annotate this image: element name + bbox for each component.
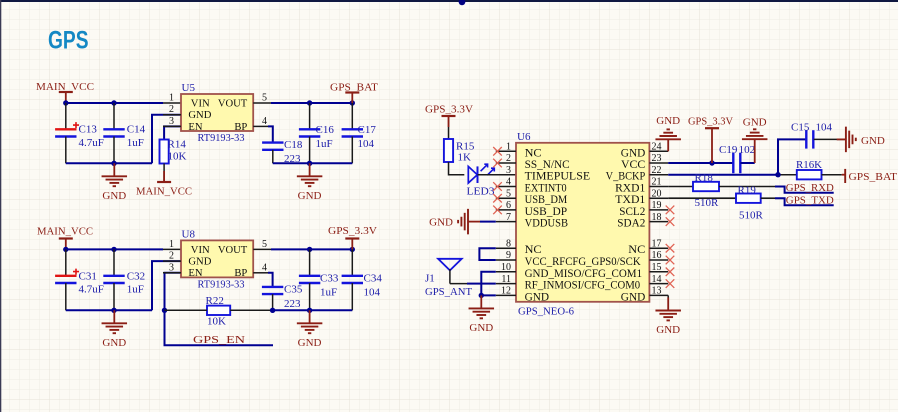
pin U5.4 stub bbox=[253, 125, 268, 127]
svg-text:10K: 10K bbox=[207, 316, 226, 328]
svg-text:BP: BP bbox=[234, 122, 247, 133]
junction bbox=[350, 100, 355, 105]
junction bbox=[307, 100, 312, 105]
ground GND above pin24 bbox=[655, 115, 681, 151]
svg-text:USB_DP: USB_DP bbox=[525, 206, 568, 218]
capacitor C33 1uF bbox=[299, 273, 339, 299]
svg-text:R18: R18 bbox=[695, 172, 714, 184]
ground GND below pin13 bbox=[655, 298, 681, 337]
svg-text:3: 3 bbox=[169, 116, 174, 127]
junction bbox=[307, 308, 312, 313]
svg-text:GND: GND bbox=[621, 291, 646, 303]
wire R19 to GPS_TXD bbox=[775, 198, 834, 205]
capacitor C14 1uF bbox=[103, 124, 145, 150]
U5 pin names bbox=[188, 98, 247, 132]
power port GPS_3.3V (top middle) bbox=[688, 115, 733, 163]
wire U5 pin5 VOUT to GPS_BAT bbox=[271, 102, 352, 104]
svg-text:2: 2 bbox=[169, 251, 174, 262]
ground GND right of C15 bbox=[837, 127, 885, 152]
wire C32 top lead bbox=[113, 249, 115, 275]
resistor R19 body bbox=[736, 194, 761, 203]
power port GPS_BAT (right) bbox=[842, 169, 897, 183]
wire C13 top lead bbox=[65, 103, 67, 129]
wire C35 bottom lead bbox=[272, 294, 274, 310]
pin U5.2 stub bbox=[163, 114, 181, 116]
svg-text:U8: U8 bbox=[182, 229, 196, 241]
resistor R18 body bbox=[693, 182, 719, 191]
wire C31 top lead bbox=[65, 249, 67, 275]
wire R19 right lead bbox=[761, 197, 775, 199]
wire U6 pin22 V_BCKP bbox=[668, 174, 778, 176]
svg-text:U6: U6 bbox=[517, 131, 531, 143]
svg-text:GPS_3.3V: GPS_3.3V bbox=[328, 225, 377, 237]
junction bbox=[111, 100, 116, 105]
svg-text:BP: BP bbox=[234, 268, 247, 279]
pin U5.1 bbox=[163, 102, 181, 104]
wire C14 bottom lead bbox=[113, 137, 115, 164]
svg-text:GPS_NEO-6: GPS_NEO-6 bbox=[518, 305, 574, 317]
svg-text:R22: R22 bbox=[206, 295, 224, 307]
wire U6 pin11 tie bbox=[481, 283, 496, 285]
svg-text:4: 4 bbox=[262, 262, 267, 273]
svg-text:1K: 1K bbox=[458, 152, 472, 164]
svg-text:1uF: 1uF bbox=[127, 284, 144, 296]
U8 pin numbers bbox=[169, 239, 267, 273]
svg-text:GPS_BAT: GPS_BAT bbox=[849, 171, 898, 183]
wire U6 pin13 to GND bbox=[667, 295, 669, 297]
svg-text:RT9193-33: RT9193-33 bbox=[198, 132, 245, 144]
wire U6 pin20 TXD1 to R19 bbox=[668, 197, 736, 199]
pin U8.3 stub bbox=[163, 272, 181, 274]
svg-text:GND: GND bbox=[102, 190, 126, 202]
svg-text:VIN: VIN bbox=[191, 98, 210, 109]
svg-text:VCC: VCC bbox=[621, 159, 646, 171]
antenna J1 GPS_ANT bbox=[438, 259, 462, 284]
capacitor C32 1uF bbox=[103, 271, 145, 296]
svg-text:R19: R19 bbox=[738, 184, 757, 196]
wire antenna to pin11 tie bbox=[467, 283, 481, 285]
op-amp U6 GPS_NEO-6 body bbox=[516, 143, 649, 302]
svg-text:10K: 10K bbox=[168, 151, 187, 163]
resistor R22 body bbox=[207, 306, 230, 315]
wire R22 left lead bbox=[165, 309, 208, 311]
pin U8.2 stub bbox=[163, 260, 181, 262]
U6 left pin stubs bbox=[496, 151, 516, 295]
wire U6 pins 8-9 tie bbox=[479, 248, 495, 260]
wire U5 pin3 EN bbox=[164, 126, 181, 139]
ground GND lower-right bbox=[297, 310, 323, 349]
svg-text:GND: GND bbox=[656, 115, 680, 127]
sheet border top bbox=[0, 0, 898, 2]
wire U5 pin2 to GND rail bbox=[152, 115, 181, 164]
svg-text:4.7uF: 4.7uF bbox=[79, 137, 104, 149]
wire R15 bottom to LED3 bbox=[449, 162, 465, 175]
U6 pin numbers bbox=[501, 142, 662, 297]
wire GND rail (lower-right) bbox=[273, 309, 353, 311]
svg-text:510R: 510R bbox=[739, 209, 764, 221]
wire antenna lead bbox=[450, 283, 467, 285]
svg-text:SS_N/NC: SS_N/NC bbox=[525, 159, 570, 171]
svg-text:MAIN_VCC: MAIN_VCC bbox=[36, 81, 94, 93]
svg-text:5: 5 bbox=[262, 93, 267, 104]
pin U5.3 stub bbox=[163, 125, 181, 127]
wire U6 pin7 VDDUSB to GND bbox=[480, 221, 496, 223]
wire U8 pin3 EN / GPS_EN bbox=[165, 273, 274, 346]
junction bbox=[63, 247, 68, 252]
power port MAIN_VCC (lower) bbox=[37, 226, 93, 250]
svg-text:104: 104 bbox=[364, 287, 381, 299]
op-amp U8 RT9193-33 body bbox=[181, 240, 253, 277]
svg-text:104: 104 bbox=[358, 138, 375, 150]
wire V_BCKP up to C15 bbox=[778, 139, 806, 174]
svg-text:C31: C31 bbox=[79, 271, 97, 283]
svg-text:NC: NC bbox=[628, 244, 645, 256]
svg-text:NC: NC bbox=[525, 147, 542, 159]
junction bbox=[111, 247, 116, 252]
wire C19 to GND stem bbox=[740, 162, 754, 164]
svg-text:GND: GND bbox=[298, 190, 322, 202]
no-connect X marks U6 left pins 1,2,4,5,6 bbox=[493, 147, 502, 214]
U5 pin numbers bbox=[169, 93, 267, 127]
wire C16 top lead bbox=[309, 103, 311, 129]
svg-text:C32: C32 bbox=[127, 271, 145, 283]
U6 pin names bbox=[525, 147, 646, 303]
pin U8.4 stub bbox=[253, 272, 268, 274]
junction on top border bbox=[459, 0, 466, 5]
power port GPS_3.3V (at R15) bbox=[425, 103, 473, 127]
svg-text:U5: U5 bbox=[182, 82, 196, 94]
capacitor C34 104 bbox=[342, 273, 383, 299]
svg-text:GND: GND bbox=[298, 337, 322, 349]
pin U5.5 stub bbox=[253, 102, 271, 104]
svg-text:4.7uF: 4.7uF bbox=[79, 284, 104, 296]
op-amp U5 RT9193-33 body bbox=[181, 94, 253, 131]
svg-text:GND: GND bbox=[188, 110, 211, 121]
wire C34 bottom lead bbox=[351, 283, 353, 310]
resistor R14 body bbox=[160, 140, 169, 164]
svg-text:C33: C33 bbox=[320, 273, 339, 285]
svg-text:RF_INMOSI/CFG_COM0: RF_INMOSI/CFG_COM0 bbox=[525, 280, 641, 292]
U8 pin names bbox=[188, 245, 247, 279]
wire U6 pin21 RXD1 to R18 bbox=[668, 186, 693, 188]
wire U6 pin23 VCC bbox=[668, 162, 733, 164]
svg-text:5: 5 bbox=[262, 239, 267, 250]
svg-text:GND: GND bbox=[656, 324, 680, 336]
pin U8.1 bbox=[163, 248, 181, 250]
wire R18 right lead bbox=[719, 186, 775, 188]
svg-text:VIN: VIN bbox=[191, 245, 210, 256]
svg-text:GND: GND bbox=[188, 257, 211, 268]
svg-text:V_BCKP: V_BCKP bbox=[606, 171, 646, 183]
wire C15 to GND bbox=[814, 138, 845, 140]
svg-text:EN: EN bbox=[188, 122, 202, 133]
power port GPS_BAT (upper) bbox=[330, 82, 378, 104]
svg-text:3: 3 bbox=[506, 165, 511, 176]
svg-text:C13: C13 bbox=[79, 124, 98, 136]
capacitor C13 4.7uF bbox=[55, 122, 104, 149]
svg-text:USB_DM: USB_DM bbox=[525, 194, 568, 206]
junction bbox=[307, 247, 312, 252]
wire R15 top lead bbox=[448, 127, 450, 139]
junction bbox=[63, 100, 68, 105]
U6 right pin stubs bbox=[649, 151, 668, 295]
svg-text:GND: GND bbox=[102, 337, 126, 349]
wire C18 bottom lead bbox=[272, 150, 274, 164]
svg-text:SCL2: SCL2 bbox=[619, 206, 645, 218]
capacitor C19 102 bbox=[733, 153, 740, 173]
svg-text:C16: C16 bbox=[316, 124, 335, 136]
svg-text:GND: GND bbox=[525, 291, 550, 303]
svg-text:C34: C34 bbox=[364, 273, 383, 285]
capacitor C17 104 bbox=[342, 124, 377, 150]
svg-text:LED3: LED3 bbox=[467, 186, 496, 198]
svg-text:GPS_BAT: GPS_BAT bbox=[330, 82, 378, 94]
wire R16 right lead bbox=[822, 174, 842, 176]
svg-text:102: 102 bbox=[739, 144, 756, 156]
junction bbox=[350, 247, 355, 252]
svg-text:C17: C17 bbox=[358, 124, 377, 136]
pin U8.5 stub bbox=[253, 248, 271, 250]
svg-text:TIMEPULSE: TIMEPULSE bbox=[525, 171, 591, 183]
svg-text:3: 3 bbox=[169, 262, 174, 273]
svg-text:RXD1: RXD1 bbox=[615, 183, 645, 195]
junction bbox=[307, 161, 312, 166]
wire GND rail (upper-left) bbox=[66, 162, 152, 164]
svg-text:GPS_3.3V: GPS_3.3V bbox=[425, 103, 473, 115]
svg-text:C35: C35 bbox=[284, 284, 303, 296]
power port MAIN_VCC (upper) bbox=[36, 81, 94, 103]
ground GND lower-left bbox=[102, 310, 128, 349]
capacitor C31 4.7uF bbox=[55, 269, 104, 296]
ground GND upper-left bbox=[102, 163, 128, 202]
svg-text:GND: GND bbox=[469, 322, 493, 334]
svg-text:VCC_RFCFG_GPS0/SCK: VCC_RFCFG_GPS0/SCK bbox=[525, 256, 642, 268]
svg-text:R16K: R16K bbox=[796, 159, 822, 171]
wire MAIN_VCC rail to U5 pin1 bbox=[66, 102, 163, 104]
ground GND upper-right bbox=[297, 163, 323, 202]
resistor R15 body bbox=[444, 139, 453, 162]
svg-text:SDA2: SDA2 bbox=[617, 218, 645, 230]
svg-text:1uF: 1uF bbox=[320, 287, 337, 299]
svg-text:GND: GND bbox=[621, 147, 646, 159]
wire C17 top lead bbox=[351, 103, 353, 129]
wire C33 top lead bbox=[309, 249, 311, 275]
wire C17 bottom lead bbox=[351, 137, 353, 164]
power port GPS_3.3V (lower) bbox=[328, 225, 377, 249]
svg-text:VDDUSB: VDDUSB bbox=[525, 218, 569, 230]
svg-text:TXD1: TXD1 bbox=[615, 194, 645, 206]
svg-text:4: 4 bbox=[262, 116, 267, 127]
svg-text:1: 1 bbox=[169, 93, 174, 104]
wire R14 bottom lead bbox=[163, 164, 165, 182]
power port MAIN_VCC (below R14) bbox=[136, 171, 192, 198]
svg-text:RT9193-33: RT9193-33 bbox=[198, 279, 245, 291]
ground GND below antenna bbox=[469, 295, 495, 334]
svg-text:C18: C18 bbox=[284, 139, 303, 151]
no-connect X marks U6 right pins 19,18,17,16,15,14 bbox=[666, 206, 675, 288]
svg-text:NC: NC bbox=[525, 244, 542, 256]
wire U8 pin5 VOUT to GPS_3.3V bbox=[271, 248, 352, 250]
svg-text:J1: J1 bbox=[425, 273, 435, 285]
wire LED3 to U6 pin3 bbox=[478, 174, 517, 176]
wire U8 pin2 to GND rail bbox=[152, 261, 181, 310]
junction bbox=[775, 172, 780, 177]
sheet border left bbox=[0, 0, 1, 412]
wire R22 right lead bbox=[230, 309, 272, 311]
svg-text:1uF: 1uF bbox=[127, 137, 144, 149]
svg-text:EN: EN bbox=[188, 268, 202, 279]
junction bbox=[111, 308, 116, 313]
svg-text:GND: GND bbox=[861, 135, 885, 147]
svg-text:GPS_3.3V: GPS_3.3V bbox=[688, 115, 733, 127]
wire C13 bottom lead bbox=[65, 137, 67, 164]
wire C16 bottom lead bbox=[309, 137, 311, 164]
resistor R16 body bbox=[797, 170, 822, 179]
svg-text:GND: GND bbox=[429, 217, 453, 229]
junction bbox=[111, 161, 116, 166]
wire GND rail (upper-right) bbox=[273, 162, 353, 164]
svg-text:C19: C19 bbox=[719, 144, 738, 156]
svg-text:MAIN_VCC: MAIN_VCC bbox=[37, 226, 93, 238]
wire C34 top lead bbox=[351, 249, 353, 275]
ground GND (inverted, right of C19) bbox=[742, 117, 768, 163]
capacitor C16 1uF bbox=[299, 124, 334, 150]
svg-text:2: 2 bbox=[169, 104, 174, 115]
svg-text:GND: GND bbox=[743, 117, 767, 129]
svg-text:104: 104 bbox=[816, 122, 833, 134]
wire C32 bottom lead bbox=[113, 283, 115, 310]
ground GND at VDDUSB bbox=[429, 209, 480, 235]
svg-text:1: 1 bbox=[169, 239, 174, 250]
wire R18 to GPS_RXD bbox=[775, 187, 834, 193]
wire U5 pin4 BP to C18 bbox=[268, 126, 273, 142]
capacitor C35 223 bbox=[262, 284, 303, 311]
svg-text:GPS: GPS bbox=[48, 27, 89, 55]
svg-text:GPS_ANT: GPS_ANT bbox=[425, 286, 472, 298]
capacitor C18 223 bbox=[262, 139, 303, 165]
junction bbox=[479, 293, 484, 298]
svg-text:VOUT: VOUT bbox=[218, 245, 248, 256]
svg-text:C14: C14 bbox=[127, 124, 146, 136]
svg-text:C15: C15 bbox=[791, 122, 810, 134]
wire MAIN_VCC rail to U8 pin1 bbox=[66, 248, 163, 250]
svg-text:VOUT: VOUT bbox=[218, 98, 248, 109]
wire C33 bottom lead bbox=[309, 283, 311, 310]
wire C14 top lead bbox=[113, 103, 115, 129]
svg-text:223: 223 bbox=[284, 298, 301, 310]
wire U6 pins 10-12 tie bbox=[481, 272, 496, 296]
junction bbox=[270, 308, 275, 313]
wire C31 bottom lead bbox=[65, 283, 67, 310]
svg-text:GPS_RXD: GPS_RXD bbox=[786, 182, 834, 194]
svg-text:EXTINT0: EXTINT0 bbox=[525, 183, 567, 195]
junction bbox=[162, 308, 167, 313]
svg-text:1uF: 1uF bbox=[316, 138, 333, 150]
wire GND rail (lower-left) bbox=[66, 309, 152, 311]
wire R16 left lead bbox=[778, 174, 797, 176]
svg-text:GND_MISO/CFG_COM1: GND_MISO/CFG_COM1 bbox=[525, 268, 643, 280]
svg-text:R14: R14 bbox=[168, 139, 187, 151]
wire U8 pin4 BP to C35 bbox=[268, 273, 273, 287]
svg-text:GPS_TXD: GPS_TXD bbox=[786, 195, 834, 207]
svg-text:MAIN_VCC: MAIN_VCC bbox=[136, 186, 192, 198]
diode LED3 bbox=[468, 164, 494, 183]
junction bbox=[709, 160, 714, 165]
capacitor C15 104 bbox=[806, 130, 813, 148]
svg-text:GPS_EN: GPS_EN bbox=[193, 334, 245, 346]
